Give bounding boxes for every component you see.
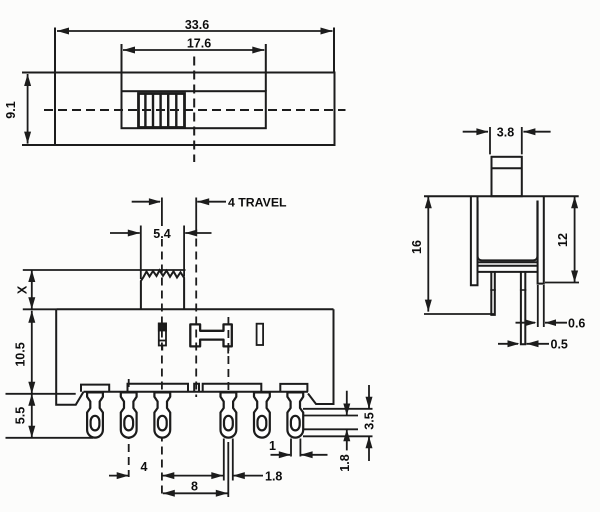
side knob — [492, 157, 522, 196]
ext 3.8 — [490, 127, 522, 154]
ext flange level left — [6, 393, 76, 395]
SIDE VIEW — [424, 157, 579, 344]
dim 4 — [109, 472, 223, 479]
dim X — [28, 270, 35, 309]
center post — [194, 384, 199, 392]
svg-text:4: 4 — [141, 460, 148, 474]
svg-text:8: 8 — [191, 480, 198, 494]
dim 10.5 — [28, 311, 35, 394]
dim 16 — [425, 196, 432, 311]
dim 8 — [163, 490, 228, 497]
pin 2 — [121, 392, 137, 437]
svg-text:12: 12 — [556, 233, 570, 247]
dim 3.5 — [366, 397, 373, 461]
vertical centerline — [193, 57, 195, 163]
pin 3 — [154, 392, 170, 437]
flange tab 3 — [203, 384, 262, 392]
contact window 1 — [159, 324, 166, 351]
svg-text:1: 1 — [269, 439, 276, 453]
dim 9.1 — [24, 74, 31, 144]
centerline knob/pin3 — [161, 226, 163, 495]
svg-text:0.5: 0.5 — [551, 338, 568, 352]
side body bottom — [478, 271, 538, 273]
label 5.4 backing — [149, 226, 175, 239]
extension lines front view — [6, 198, 373, 438]
leads below pin4 — [224, 439, 233, 498]
svg-text:1.8: 1.8 — [265, 470, 282, 484]
svg-text:17.6: 17.6 — [187, 37, 211, 51]
svg-text:16: 16 — [410, 240, 424, 254]
ext pin bottom left — [6, 437, 94, 439]
dim 1.8 bottom — [233, 472, 263, 479]
side left pin — [491, 272, 495, 315]
ext 5.4 verticals — [141, 226, 184, 280]
svg-text:33.6: 33.6 — [185, 18, 209, 32]
pin holes — [91, 416, 300, 431]
front body outline — [56, 308, 333, 310]
ext body top left — [23, 308, 56, 310]
side right leg — [538, 196, 544, 283]
side extension lines — [424, 127, 579, 327]
dim 4 TRAVEL — [132, 198, 226, 205]
dim 12 — [571, 196, 578, 282]
flange tab 1 — [81, 385, 109, 392]
svg-text:1.8: 1.8 — [338, 454, 352, 471]
ext 16 bottom — [424, 313, 494, 315]
pin 6 — [287, 392, 303, 437]
ext 12 bottom — [545, 282, 579, 284]
horizontal centerline — [44, 109, 346, 111]
pins — [87, 392, 303, 437]
ext 4travel verticals — [162, 198, 196, 226]
centerline body center — [195, 226, 197, 398]
flange base line — [84, 391, 309, 393]
svg-text:4 TRAVEL: 4 TRAVEL — [228, 196, 287, 210]
moving contact H shape — [190, 324, 232, 353]
centerline pin4 — [227, 317, 229, 391]
pin 1 — [87, 392, 103, 437]
actuator knob front — [141, 270, 184, 309]
dim 17.6 — [123, 47, 264, 54]
svg-text:0.6: 0.6 — [568, 317, 585, 331]
FRONT VIEW — [56, 270, 333, 404]
body outline top view — [55, 73, 335, 146]
ext 0.6 verticals — [538, 285, 544, 327]
leads below pin6 — [291, 439, 300, 457]
svg-text:5.5: 5.5 — [14, 407, 28, 424]
extension lines 17.6 — [122, 44, 266, 91]
dim 33.6 — [57, 28, 333, 35]
svg-text:5.4: 5.4 — [153, 227, 170, 241]
dim 1 — [271, 451, 328, 458]
slider knob hatched — [139, 94, 185, 128]
dim 5.5 — [28, 394, 35, 438]
extension lines 33.6 — [55, 28, 334, 73]
pin 5 — [254, 392, 270, 437]
side body top line — [424, 195, 579, 197]
svg-text:10.5: 10.5 — [14, 342, 28, 366]
svg-text:9.1: 9.1 — [4, 101, 18, 118]
svg-text:3.5: 3.5 — [363, 412, 377, 429]
svg-text:3.8: 3.8 — [497, 126, 514, 140]
dashed centerlines front view — [129, 226, 229, 495]
dim 0.6 — [516, 319, 568, 326]
flange tab 2 — [128, 384, 189, 392]
side inner cavity — [478, 201, 538, 261]
extension lines 9.1 — [22, 73, 55, 146]
dim 1.8 right — [343, 404, 350, 451]
pin 4 — [221, 392, 237, 437]
centerline pin2 — [128, 379, 130, 477]
flange tab 4 — [280, 384, 307, 392]
ext right side horizontals — [303, 409, 373, 437]
dim 3.8 — [463, 128, 551, 135]
dim 0.5 — [498, 340, 549, 347]
contact window 2 — [257, 324, 264, 345]
ext knob top — [23, 269, 186, 271]
side left leg — [471, 196, 478, 285]
dim 5.4 — [110, 230, 212, 237]
svg-text:X: X — [16, 285, 30, 294]
slot opening — [122, 91, 266, 128]
ext right vertical tails — [347, 385, 369, 416]
side center pin — [521, 272, 525, 344]
